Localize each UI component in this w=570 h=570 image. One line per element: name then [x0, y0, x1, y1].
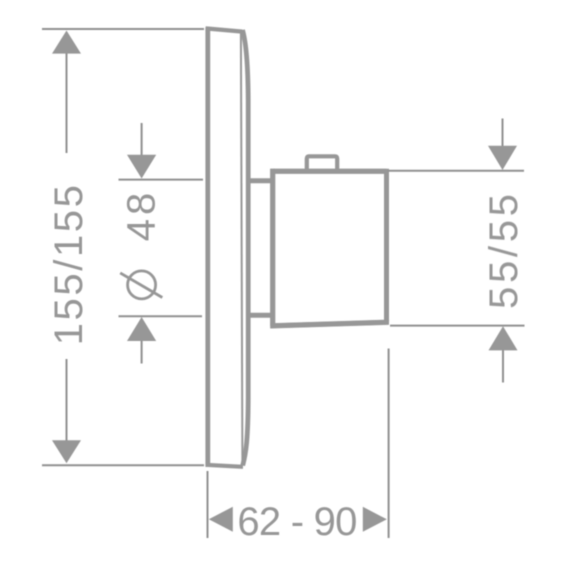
- svg-text:62 - 90: 62 - 90: [237, 500, 356, 544]
- svg-text:155/155: 155/155: [47, 183, 91, 346]
- svg-text:48: 48: [120, 189, 164, 242]
- svg-text:55/55: 55/55: [482, 190, 526, 309]
